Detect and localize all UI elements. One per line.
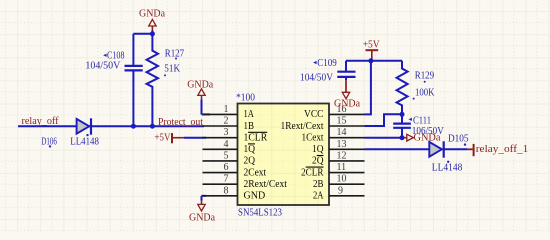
wire pin1 stub [202,113,211,115]
svg-text:VCC: VCC [304,108,324,120]
junction dot (R127/relay_off wire) [150,124,155,129]
svg-text:GNDa: GNDa [334,99,360,110]
wire C109 vertical [345,61,347,80]
svg-text:2Rext/Cext: 2Rext/Cext [244,178,287,190]
svg-text:2: 2 [224,116,229,127]
power GNDa (above pin 1) [187,79,213,114]
svg-text:+5V: +5V [363,40,380,51]
overline 2CLR (pin11) [306,166,324,168]
wire pin16 to +5V rail [365,61,371,115]
svg-text:51K: 51K [164,63,180,74]
svg-text:+5V: +5V [155,133,171,144]
junction dot (top GNDa node) [150,31,155,36]
svg-text:12: 12 [337,150,347,161]
overline 1Q (pin4) [248,143,255,145]
wire pin14 [365,137,405,139]
svg-text:GNDa: GNDa [189,212,215,223]
diode D106 [77,118,91,134]
svg-text:relay_off: relay_off [22,116,59,127]
wire pin8 stub [202,195,207,197]
svg-text:1A: 1A [244,108,255,120]
overline 1CLR (pin3) [248,131,267,133]
svg-text:1Rext/Cext: 1Rext/Cext [281,120,324,132]
svg-text:GNDa: GNDa [187,79,213,90]
svg-text:100K: 100K [415,88,435,99]
wire pin3 [184,137,206,139]
svg-text:D105: D105 [448,134,469,145]
svg-text:SN54LS123: SN54LS123 [238,207,282,218]
red stub relay_off_1 [467,148,473,150]
svg-text:relay_off_1: relay_off_1 [476,144,529,155]
svg-text:R129: R129 [415,70,435,81]
svg-text:4: 4 [224,139,229,150]
svg-text:2Q: 2Q [312,155,324,167]
svg-text:1Cext: 1Cext [302,132,324,144]
svg-text:LL4148: LL4148 [70,137,99,148]
pin numbers left [224,104,229,196]
svg-text:1Q: 1Q [312,143,324,155]
svg-text:LL4148: LL4148 [432,163,463,174]
pin numbers right [337,104,347,196]
IC left pins 1-8 [203,114,238,195]
svg-text:15: 15 [337,116,347,127]
svg-text:GNDa: GNDa [414,133,441,144]
power GNDa (below pin 8) [189,196,215,224]
wire C108 vertical [133,34,152,126]
resistor R129 [397,61,408,115]
svg-text:GNDa: GNDa [139,8,165,19]
junction dot (+5V rail / pin16) [368,58,373,63]
power +5V (left, pin 3) [155,133,185,144]
svg-text:14: 14 [337,127,347,138]
wire pin13 to D105 [365,148,430,150]
power GNDa (right of pin14) [404,133,441,144]
svg-text:2Q: 2Q [244,155,256,167]
svg-text:104/50V: 104/50V [85,61,120,72]
svg-text:5: 5 [224,150,229,161]
svg-text:2CLR: 2CLR [301,166,324,178]
wire +5V rail horizontal [346,60,402,62]
svg-text:R127: R127 [165,48,185,59]
junction dot (C108/relay_off wire) [131,124,136,129]
resistor R127 [147,34,158,126]
IC U100 SN54LS123 body [238,104,330,206]
svg-text:*100: *100 [236,92,255,103]
svg-text:11: 11 [337,162,347,173]
power GNDa (below C109) [334,80,360,109]
svg-text:7: 7 [224,174,229,185]
svg-text:2A: 2A [313,190,324,202]
pin names right [281,108,325,201]
svg-text:1Q: 1Q [244,143,256,155]
svg-text:9: 9 [338,185,343,196]
svg-text:C111: C111 [413,115,431,126]
capacitor C111 [393,114,411,137]
svg-text:1CLR: 1CLR [244,132,268,144]
net tick relay_off_1 [473,144,475,156]
svg-text:2Cext: 2Cext [244,166,267,178]
wire pin15 to C111 node [365,114,403,126]
wire relay_off horizontal [18,125,204,127]
wire D105 to relay_off_1 [444,148,467,150]
svg-text:104/50V: 104/50V [300,73,333,84]
pin names left [244,108,287,201]
svg-text:1: 1 [224,104,229,115]
svg-text:C109: C109 [317,58,337,69]
svg-text:6: 6 [224,162,229,173]
svg-text:GND: GND [244,190,266,202]
svg-text:8: 8 [224,185,229,196]
svg-text:1B: 1B [244,120,255,132]
power GNDa (top, above R127) [139,8,165,34]
svg-text:Protect_out: Protect_out [158,117,203,128]
svg-text:13: 13 [337,139,347,150]
svg-text:10: 10 [337,174,347,185]
junction dot (R129/C111/pin15) [400,112,405,117]
capacitor C109 [337,72,355,77]
junction dot (C111/pin14) [400,135,405,140]
svg-text:2B: 2B [313,178,324,190]
power +5V (top right) [363,40,380,61]
capacitor C108 [125,66,143,71]
IC right pins 16-9 [329,114,365,195]
diode D105 [429,141,443,157]
overline 2Q (pin12) [317,155,324,157]
svg-text:3: 3 [224,127,229,138]
